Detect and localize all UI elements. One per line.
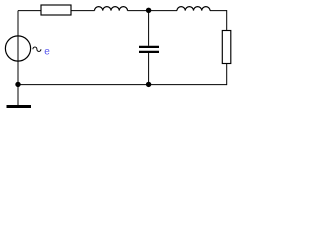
node bottom-mid (junction dot) — [146, 82, 151, 87]
wire top rail — [18, 10, 227, 12]
node top (junction dot) — [146, 8, 151, 13]
wire right branch — [226, 10, 228, 85]
wire left branch (source riser) — [17, 11, 19, 105]
wire capacitor branch — [148, 11, 150, 85]
capacitor C1 plates — [139, 47, 159, 52]
AC source V1 (circle) — [5, 36, 30, 61]
ground — [7, 105, 32, 108]
resistor R2 (vertical, right load) — [222, 31, 231, 64]
inductor L2 — [177, 7, 210, 11]
inductor L1 — [95, 7, 128, 11]
resistor R1 (horizontal, top left) — [41, 5, 71, 15]
wire bottom rail — [18, 84, 227, 86]
AC sine symbol — [33, 47, 41, 51]
svg-text:e: e — [44, 47, 50, 58]
node bottom-left (junction dot) — [15, 82, 20, 87]
